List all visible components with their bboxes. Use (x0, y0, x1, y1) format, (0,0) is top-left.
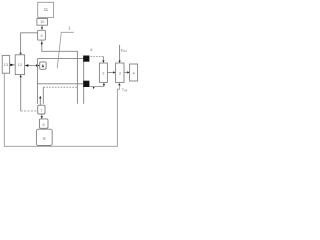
svg-text:12: 12 (18, 62, 23, 67)
double arrow 12 to modulator 8 (25, 64, 40, 67)
wire up into 12 (20, 75, 22, 111)
arrow into 3 top (118, 45, 120, 63)
arrow 2 to 3 (107, 71, 115, 73)
svg-text:7: 7 (40, 108, 42, 113)
svg-text:6: 6 (43, 122, 45, 127)
lower channel wire (38, 83, 84, 85)
mirror square bottom (83, 81, 89, 87)
svg-text:11: 11 (44, 7, 49, 12)
box 9 (38, 30, 46, 40)
box 6 (39, 119, 48, 128)
box 3 (116, 63, 124, 82)
box 4 (130, 64, 138, 81)
mirror square top (83, 56, 89, 62)
dashed wire top mirror to box 2 top (91, 56, 105, 63)
small down arrow under lower wire (93, 87, 95, 90)
box 10 (37, 19, 48, 26)
label 1 with leader (57, 26, 74, 69)
svg-text:T04: T04 (122, 87, 128, 93)
arrow 13 to 12 (10, 64, 16, 67)
box 2 (99, 63, 107, 82)
svg-text:10: 10 (40, 20, 44, 24)
optical axis wire (38, 58, 85, 60)
assembly left wall (37, 59, 39, 104)
assembly right wall (83, 57, 85, 104)
dashed wire to box 7 (21, 110, 38, 112)
box 12 (15, 55, 24, 75)
arrow up from 7 (39, 96, 41, 105)
box 13 (2, 55, 9, 73)
wire arrow 10 to 9 (41, 25, 43, 30)
arrow 7 to 6 (41, 114, 43, 119)
svg-text:13: 13 (4, 62, 9, 67)
wire 9 down right down (41, 40, 78, 104)
feedback wire bottom loop (4, 73, 120, 146)
wire 9 to 12 (19, 33, 37, 55)
svg-text:6: 6 (90, 48, 92, 52)
svg-text:E01: E01 (121, 47, 127, 53)
modulator box 8 (40, 62, 46, 69)
arrow 3 to 4 (124, 71, 130, 73)
box 11 (38, 2, 54, 17)
box 7 (38, 105, 45, 114)
svg-text:1: 1 (68, 26, 71, 31)
box 5 (36, 129, 52, 145)
dashed inner wire (43, 87, 77, 104)
svg-text:9: 9 (41, 34, 43, 38)
wire bottom mirror to box 2 bottom (90, 83, 106, 87)
